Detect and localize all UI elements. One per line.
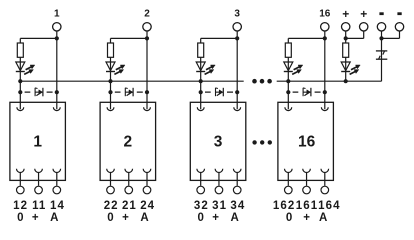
svg-text:A: A [319,212,327,224]
svg-text:+: + [360,7,367,21]
svg-text:12: 12 [13,200,28,212]
svg-text:0: 0 [107,212,113,224]
svg-text:A: A [231,212,239,224]
svg-text:2: 2 [124,134,133,151]
svg-text:3: 3 [234,8,240,19]
svg-text:31: 31 [212,200,227,212]
svg-text:164: 164 [318,200,341,212]
svg-text:1: 1 [33,134,42,151]
svg-text:A: A [50,212,58,224]
svg-text:21: 21 [122,200,137,212]
svg-text:+: + [32,212,39,224]
svg-text:32: 32 [194,200,209,212]
svg-text:1: 1 [54,8,60,19]
svg-text:A: A [140,212,148,224]
svg-text:14: 14 [50,200,65,212]
svg-text:24: 24 [140,200,155,212]
svg-text:11: 11 [32,200,46,212]
svg-text:+: + [212,212,219,224]
svg-text:16: 16 [298,134,316,151]
svg-text:2: 2 [144,8,150,19]
svg-text:+: + [122,212,129,224]
svg-text:34: 34 [230,200,245,212]
svg-text:161: 161 [296,200,319,212]
svg-text:162: 162 [273,200,296,212]
svg-text:+: + [303,212,310,224]
svg-text:16: 16 [319,8,331,19]
svg-text:3: 3 [214,134,223,151]
svg-text:0: 0 [286,212,292,224]
svg-text:0: 0 [17,212,23,224]
svg-text:0: 0 [197,212,203,224]
svg-text:+: + [342,7,349,21]
svg-text:22: 22 [104,200,119,212]
